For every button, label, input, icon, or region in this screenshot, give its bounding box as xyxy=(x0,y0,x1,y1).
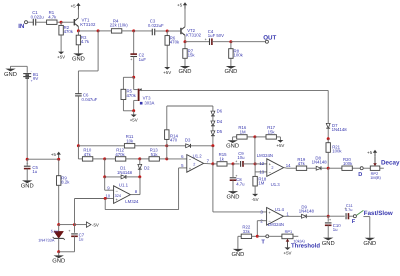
capacitor C6 0.047uF xyxy=(75,93,98,102)
wire R10 to node V xyxy=(93,158,105,160)
resistor R1 4.7k xyxy=(47,10,58,24)
wire drain node to R5 top xyxy=(123,77,133,89)
node T1 junction R11/R14/D3 xyxy=(165,144,168,147)
wire D9 to node AG xyxy=(306,215,328,217)
wire node G to C4 xyxy=(185,41,210,43)
svg-text:D4: D4 xyxy=(217,119,223,124)
ground below switch xyxy=(363,238,376,247)
wire R1 to node A xyxy=(57,21,61,23)
ground below R7 xyxy=(179,58,192,75)
capacitor C4 1uF 50V xyxy=(205,29,225,45)
net label Threshold xyxy=(291,242,320,249)
diode D7 1N4148 xyxy=(326,123,347,132)
svg-text:-5V: -5V xyxy=(252,197,259,202)
wire D8 to node AF xyxy=(321,167,328,169)
svg-text:GND: GND xyxy=(231,251,244,258)
node IN terminal and label xyxy=(18,21,27,31)
wire pin10 to U1.1 xyxy=(105,198,113,200)
diode D8 1N4148 xyxy=(312,156,328,171)
node V junction R10/R12/pin9 branch xyxy=(103,157,106,160)
svg-text:1N4148: 1N4148 xyxy=(299,208,315,213)
wire VT2 emitter down xyxy=(184,35,186,41)
wire D5 to node U xyxy=(212,136,214,146)
node S junction D7/R21 xyxy=(327,137,330,140)
wire R9 to -5V node xyxy=(58,185,60,224)
svg-text:+5: +5 xyxy=(71,3,77,8)
transistor VT3 KP303A JFET xyxy=(134,77,155,111)
svg-text:+: + xyxy=(329,218,331,222)
svg-text:22k (10k): 22k (10k) xyxy=(110,22,128,27)
wire C9 to node AD xyxy=(243,163,255,165)
power -5V arrow right xyxy=(75,222,99,228)
diode D4 xyxy=(211,119,223,126)
wire node A to VT1 base xyxy=(61,21,74,23)
node T terminal and label xyxy=(261,235,268,246)
wire R19 to D8 xyxy=(307,167,317,169)
wire R5 bottom loop xyxy=(123,100,133,111)
capacitor C7 1u xyxy=(68,225,84,242)
op-amp U1.2 LM324 xyxy=(181,154,210,173)
wire R20 to node D xyxy=(352,167,360,169)
node B junction VT1 emitter/R3 xyxy=(77,29,80,32)
diode D6 xyxy=(211,109,223,116)
wire node Y down to pin9 xyxy=(105,177,114,190)
resistor R7 15k xyxy=(183,42,196,59)
node AG junction D9/C10/C11 xyxy=(327,215,330,218)
svg-text:470k: 470k xyxy=(127,93,137,98)
resistor R9 8.2k xyxy=(57,159,71,185)
svg-text:D6: D6 xyxy=(217,109,223,114)
node K junction +5/R9 xyxy=(57,158,60,161)
wire switch to ground xyxy=(363,217,373,238)
svg-text:100k: 100k xyxy=(234,53,244,58)
wire node C down xyxy=(78,31,98,94)
svg-text:+: + xyxy=(235,159,237,163)
resistor R22 33k xyxy=(241,225,251,239)
wire R16 to node AE xyxy=(247,136,255,138)
svg-text:47k: 47k xyxy=(84,152,92,157)
wire node J to node K xyxy=(27,158,59,160)
node A junction R1/R2/VT1 base xyxy=(60,21,63,24)
svg-text:470k: 470k xyxy=(115,152,125,157)
wire node AF down to node AG xyxy=(327,168,329,216)
resistor R13 51k xyxy=(140,147,160,161)
wire node T1 to D3 xyxy=(167,145,186,147)
node AE junction R16/R17 xyxy=(253,135,256,138)
svg-text:U1.3: U1.3 xyxy=(271,182,281,187)
wire -5V node to C7 xyxy=(59,224,75,226)
potentiometer RP1 10k(A) xyxy=(282,229,306,248)
power +5 above VT1 xyxy=(71,3,81,10)
wire B1 to node J xyxy=(26,78,28,159)
resistor R19 47k xyxy=(296,157,306,171)
op-amp U1.1 LM324 xyxy=(105,182,139,204)
resistor R6 470k xyxy=(165,31,180,45)
power +5V below R6 xyxy=(163,45,171,75)
wire VT2 collector to +5 xyxy=(184,9,186,27)
node Z junction D1/D2/feedback xyxy=(138,175,141,178)
node M junction zener/C7 gnd xyxy=(57,250,60,253)
node P junction C6/R10/R11 xyxy=(77,144,80,147)
wire node F1 to VT2 base xyxy=(167,30,180,32)
wire node P to R11 xyxy=(78,145,124,147)
wire R12 to node W xyxy=(126,158,140,160)
wire C2 to VT3 drain node xyxy=(133,57,135,78)
wire node AB to R15 xyxy=(213,163,217,165)
wire C4 to node H xyxy=(212,41,231,43)
resistor R4 22k (10k) xyxy=(110,18,128,33)
svg-text:GND: GND xyxy=(227,193,240,200)
node X junction R13/R14 bottom/pin6 xyxy=(165,157,168,160)
wire emitter row B to C xyxy=(78,30,98,32)
svg-text:47k: 47k xyxy=(298,161,306,166)
wire node H to OUT xyxy=(231,41,266,43)
diode D5 xyxy=(211,129,223,136)
wire RP2 right stub xyxy=(380,167,384,169)
node D terminal and label xyxy=(358,167,363,178)
svg-text:1N4148: 1N4148 xyxy=(312,160,328,165)
node AH junction R22/pin2/T xyxy=(256,235,259,238)
node AC junction R15/C8/C9 xyxy=(232,162,235,165)
svg-text:4.7u: 4.7u xyxy=(345,207,353,212)
svg-text:0.047uF: 0.047uF xyxy=(82,97,98,102)
wire node AD to U1.3 pin12 xyxy=(255,163,267,165)
wire node P down to R10 xyxy=(78,146,82,159)
node Q junction VT3 drain/R5 xyxy=(132,76,135,79)
svg-text:33k: 33k xyxy=(243,229,251,234)
svg-text:RP1: RP1 xyxy=(285,229,293,234)
resistor R14 470 xyxy=(165,130,179,146)
wire node E down to C2 xyxy=(133,31,135,54)
wire pin10 node down and right to U1.2 pin5 xyxy=(105,168,187,210)
wire D3 to node U xyxy=(191,145,213,147)
svg-text:GND: GND xyxy=(179,68,192,75)
svg-text:1u: 1u xyxy=(79,237,84,242)
capacitor C5 1u xyxy=(24,159,39,174)
svg-text:1M(B): 1M(B) xyxy=(370,175,381,180)
transistor VT1 KT3102 xyxy=(74,18,96,27)
svg-text:GND: GND xyxy=(52,258,65,265)
svg-text:KT3102: KT3102 xyxy=(186,32,202,37)
svg-text:OUT: OUT xyxy=(263,34,276,41)
wire D1 to node Z xyxy=(126,176,140,178)
wire C1 to R1 xyxy=(36,21,47,23)
wire C7 to gnd node xyxy=(59,236,75,252)
svg-text:+5: +5 xyxy=(51,152,57,157)
svg-text:2: 2 xyxy=(271,166,273,170)
wire node AD down to R18 and pin13 xyxy=(255,164,267,177)
ground below R3 xyxy=(72,45,85,63)
svg-text:13: 13 xyxy=(259,169,264,174)
ground below R8 xyxy=(224,58,237,75)
svg-text:F: F xyxy=(352,219,356,225)
resistor R5 470k xyxy=(121,88,137,99)
svg-text:15k: 15k xyxy=(268,129,276,134)
battery B1 9V xyxy=(23,69,39,83)
svg-text:100k: 100k xyxy=(343,161,353,166)
svg-text:U1.2: U1.2 xyxy=(193,154,203,159)
wire R4 to node E xyxy=(122,30,134,32)
wire D7 to R21 xyxy=(327,128,329,139)
svg-text:12: 12 xyxy=(259,161,264,166)
node U junction D3/stack/U1.2 out rail xyxy=(211,144,214,147)
svg-text:IN: IN xyxy=(18,23,25,30)
ground at battery xyxy=(4,66,27,78)
svg-text:4.7u: 4.7u xyxy=(236,181,245,186)
svg-text:+5: +5 xyxy=(177,3,183,8)
capacitor C9 10u xyxy=(235,151,245,167)
zener VD1 1N4733A 5.1v xyxy=(38,225,64,252)
svg-text:1uF 50V: 1uF 50V xyxy=(208,33,224,38)
wire node C to R4 xyxy=(98,30,111,32)
svg-text:Threshold: Threshold xyxy=(291,242,320,249)
svg-text:14: 14 xyxy=(286,163,291,168)
node R junction VT3 source xyxy=(132,109,135,112)
wire RP1 right stub xyxy=(293,235,298,237)
wire node AC to C9 xyxy=(233,163,240,165)
power +5 above node K xyxy=(51,152,61,159)
power -5V below R18 xyxy=(252,186,259,202)
node J junction B1/C5/rail xyxy=(26,158,29,161)
svg-text:5.1v: 5.1v xyxy=(51,228,58,233)
diode D3 xyxy=(185,138,191,148)
ground below C10 xyxy=(322,225,335,247)
node L junction -5V rail left xyxy=(57,223,60,226)
wire R21 to decay node xyxy=(327,152,329,168)
svg-text:D: D xyxy=(358,172,362,178)
wire R22 to node AH xyxy=(252,235,258,237)
node Y junction D1 anode xyxy=(103,175,106,178)
ground below zener xyxy=(52,252,65,265)
wire U1.4 output to D9 xyxy=(283,215,301,217)
wire node V down to D1 node xyxy=(104,159,106,177)
svg-text:10u: 10u xyxy=(237,155,245,160)
svg-text:Fast/Slow: Fast/Slow xyxy=(364,210,393,217)
svg-text:Decay: Decay xyxy=(381,159,400,166)
diode D1 1N4148 xyxy=(117,166,133,179)
svg-text:U1.4: U1.4 xyxy=(275,207,285,212)
capacitor C10 1u xyxy=(325,216,341,232)
svg-text:+: + xyxy=(68,229,70,233)
wire -5V node up to pin10 row xyxy=(75,199,106,225)
resistor R21 100k xyxy=(326,139,342,154)
resistor R15 1k xyxy=(217,152,227,166)
svg-text:D5: D5 xyxy=(217,129,223,134)
resistor R20 100k xyxy=(342,157,353,171)
svg-text:100k: 100k xyxy=(332,149,342,154)
wire U1.3 output to R19 xyxy=(284,167,297,170)
wire T to RP1 xyxy=(269,235,282,237)
svg-text:KT3102: KT3102 xyxy=(80,22,96,27)
resistor R8 100k xyxy=(229,42,244,59)
svg-text:8.2k: 8.2k xyxy=(61,180,70,185)
svg-text:D3: D3 xyxy=(185,138,191,143)
svg-text:1M: 1M xyxy=(240,129,246,134)
svg-text:+: + xyxy=(235,174,237,178)
svg-text:GND: GND xyxy=(322,240,335,247)
svg-text:9V: 9V xyxy=(33,76,38,81)
resistor R11 10k xyxy=(124,134,134,148)
ground left of R16 xyxy=(226,137,239,150)
capacitor C3 0.022uF xyxy=(148,18,164,35)
wire C11 to node F xyxy=(349,215,354,217)
svg-text:+5V: +5V xyxy=(130,118,138,123)
switch blade Fast/Slow xyxy=(356,210,363,215)
svg-text:+: + xyxy=(205,37,207,41)
svg-text:15k: 15k xyxy=(188,53,196,58)
node F terminal and label xyxy=(352,215,357,226)
svg-text:4.7k: 4.7k xyxy=(81,39,90,44)
svg-text:+5V: +5V xyxy=(276,143,284,148)
svg-text:-5V: -5V xyxy=(92,223,99,228)
node OUT terminal and label xyxy=(263,34,276,43)
svg-text:+5V: +5V xyxy=(284,250,292,255)
ground below C5 xyxy=(21,169,34,190)
svg-text:GND: GND xyxy=(224,68,237,75)
svg-text:U1.1: U1.1 xyxy=(119,182,129,187)
svg-text:303A: 303A xyxy=(144,101,154,106)
net label Decay xyxy=(381,159,400,166)
svg-text:1M: 1M xyxy=(258,181,264,186)
power +5V below RP1 xyxy=(284,247,292,255)
svg-text:470k: 470k xyxy=(170,39,180,44)
wire node AB down to U1.4 pin3 xyxy=(213,164,267,212)
wire R13 to node X xyxy=(159,158,166,160)
svg-text:D2: D2 xyxy=(144,165,150,170)
svg-text:GND: GND xyxy=(72,56,85,63)
node E junction R4/C2/C3 xyxy=(132,29,135,32)
resistor R12 470k xyxy=(105,147,126,161)
svg-text:LM324N: LM324N xyxy=(257,153,273,158)
resistor R16 1M xyxy=(237,125,247,139)
resistor R18 1M xyxy=(253,176,267,186)
svg-text:0.022uF: 0.022uF xyxy=(148,23,164,28)
svg-text:GND: GND xyxy=(363,240,376,247)
svg-text:10k: 10k xyxy=(126,139,134,144)
diode D2 xyxy=(138,159,150,177)
wire node E to C3 xyxy=(134,30,153,32)
wire node AF to R20 xyxy=(328,167,342,169)
resistor R2 470k xyxy=(59,22,74,35)
ground left of R22 xyxy=(231,236,244,258)
potentiometer RP2 1M(B) xyxy=(370,156,381,180)
svg-text:1uF: 1uF xyxy=(139,57,147,62)
net label Fast/Slow xyxy=(364,210,393,217)
wire U1.2 output to node AB xyxy=(204,162,213,165)
wire node T1 to node X xyxy=(166,146,168,159)
svg-text:GND: GND xyxy=(21,183,34,190)
svg-text:+5V: +5V xyxy=(163,70,171,75)
svg-text:GND: GND xyxy=(4,71,17,78)
wire node D to RP2 xyxy=(363,167,370,169)
wire node AE down to node AD xyxy=(254,137,256,164)
power +5V below VT3 xyxy=(130,111,138,123)
node F1 junction C3/R6/VT2 base xyxy=(166,30,169,33)
resistor R10 47k xyxy=(82,147,92,161)
wire U1.4 pin2 from T node xyxy=(257,221,266,237)
node AD junction C9/R18/pins xyxy=(254,162,257,165)
node AF junction D8/R21/R20/down xyxy=(327,167,330,170)
wire gate rail xyxy=(140,90,329,123)
wire U1.1 output up to node Z xyxy=(130,177,140,195)
wire node X to U1.2 pin6 xyxy=(167,158,187,160)
svg-text:4.7k: 4.7k xyxy=(48,15,57,20)
wire R11 to node T1 xyxy=(135,145,167,147)
wire D6 to D4 xyxy=(212,116,214,121)
svg-text:1N4733A: 1N4733A xyxy=(38,238,55,243)
wire R14 top loop to diode stack xyxy=(167,106,213,130)
svg-text:0.022u: 0.022u xyxy=(31,15,45,20)
wire node Y to D1 xyxy=(105,176,121,178)
wire IN to C1 xyxy=(28,21,34,23)
capacitor C1 0.022u xyxy=(31,10,45,25)
ground below C8 xyxy=(227,180,240,200)
svg-text:470: 470 xyxy=(170,137,178,142)
resistor R3 4.7k xyxy=(76,31,90,45)
svg-text:+5: +5 xyxy=(367,150,373,155)
svg-text:470k: 470k xyxy=(64,29,74,34)
svg-text:LM324: LM324 xyxy=(125,199,139,204)
svg-text:1u: 1u xyxy=(333,227,338,232)
capacitor C11 4.7u xyxy=(328,203,353,219)
wire C3 to node F1 xyxy=(155,30,168,32)
node H junction C4/R8/OUT xyxy=(229,40,232,43)
resistor R17 15k xyxy=(255,125,277,139)
wire node AH to T terminal xyxy=(257,235,266,237)
power +5 above RP2 xyxy=(367,150,377,157)
node W junction R12/R13/D2 xyxy=(138,157,141,160)
diode D9 1N4148 xyxy=(299,204,315,218)
svg-text:2: 2 xyxy=(193,162,195,166)
svg-text:T: T xyxy=(261,239,265,245)
transistor VT2 KT3102 xyxy=(180,27,201,38)
capacitor C8 4.7u xyxy=(230,164,245,187)
node C junction to C6 branch xyxy=(97,29,100,32)
node N junction C7 top xyxy=(73,223,76,226)
op-amp U1.4 LM324N xyxy=(260,207,289,227)
power +5V right of R17 xyxy=(276,137,284,148)
svg-text:1N4148: 1N4148 xyxy=(332,127,348,132)
svg-text:GND: GND xyxy=(226,142,239,149)
svg-text:-: - xyxy=(31,69,32,73)
svg-text:+: + xyxy=(130,57,132,61)
svg-text:1N4148: 1N4148 xyxy=(117,170,133,175)
node AA junction pin10 xyxy=(104,197,107,200)
svg-text:51k: 51k xyxy=(151,152,159,157)
op-amp U1.3 LM324N xyxy=(257,153,291,187)
power +5 above VT2 xyxy=(177,2,187,9)
node G junction VT2 emitter/R7/C4 xyxy=(184,40,187,43)
wire VT1 collector to +5 xyxy=(77,10,79,18)
power +5V below R2 xyxy=(57,35,65,60)
wire VT1 emitter down xyxy=(77,27,79,31)
wire D4 to D5 xyxy=(212,126,214,131)
wire R15 to node AC xyxy=(227,163,233,165)
wire C6 down to node P xyxy=(77,96,79,146)
node AB junction U1.2 out/R15 xyxy=(211,162,214,165)
svg-text:+5V: +5V xyxy=(57,55,65,60)
wire node U down to U1.2 output node xyxy=(212,146,214,164)
svg-text:1u: 1u xyxy=(32,169,37,174)
capacitor C2 1uF xyxy=(130,53,146,62)
